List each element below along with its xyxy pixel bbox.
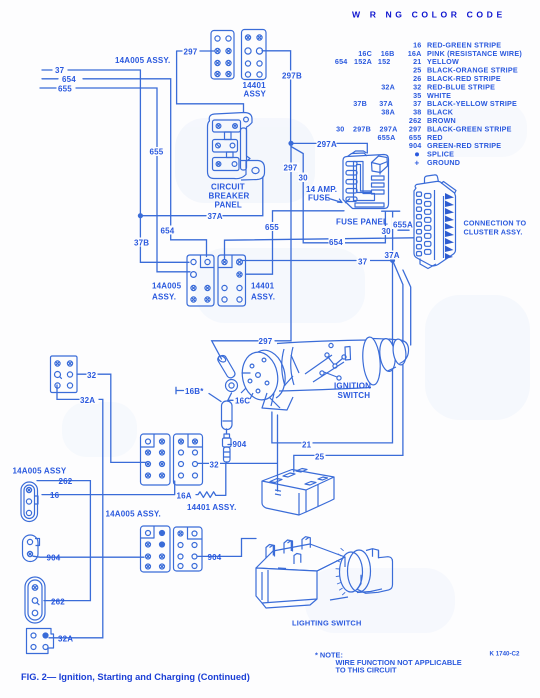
svg-text:655: 655 bbox=[58, 85, 72, 94]
cluster connector drawing bbox=[392, 175, 456, 269]
svg-text:IGNITION: IGNITION bbox=[334, 382, 371, 391]
connector 904 pair right bbox=[174, 527, 203, 571]
label wire 30 fuse panel bbox=[381, 226, 392, 236]
svg-text:654: 654 bbox=[329, 238, 343, 247]
svg-text:37B: 37B bbox=[134, 238, 149, 247]
svg-text:14A005 ASSY: 14A005 ASSY bbox=[13, 467, 67, 476]
svg-text:904: 904 bbox=[47, 554, 61, 563]
svg-text:GROUND: GROUND bbox=[427, 158, 460, 167]
wire 654 left entry bbox=[42, 79, 207, 257]
svg-text:16C: 16C bbox=[235, 397, 250, 406]
label wire 30 bbox=[298, 173, 308, 183]
wire 904 right to lighting switch bbox=[198, 539, 256, 557]
svg-text:297: 297 bbox=[259, 337, 273, 346]
svg-text:30: 30 bbox=[382, 227, 392, 236]
svg-text:904: 904 bbox=[233, 440, 247, 449]
label wire 32A lower bbox=[58, 635, 73, 644]
svg-text:37A: 37A bbox=[208, 212, 223, 221]
wire 297A to fuse panel bbox=[291, 143, 367, 153]
label wire 32 bbox=[209, 460, 220, 470]
wire 30 from junction bbox=[291, 147, 385, 243]
svg-text:654: 654 bbox=[335, 57, 348, 66]
svg-text:297B: 297B bbox=[353, 124, 371, 133]
svg-text:W R NG COLOR CODE: W R NG COLOR CODE bbox=[352, 10, 506, 20]
label wire 37A junction bbox=[384, 251, 402, 261]
wire 37A vertical fuse panel to junction bbox=[392, 211, 394, 260]
svg-text:+: + bbox=[415, 158, 420, 167]
svg-text:FUSE PANEL: FUSE PANEL bbox=[336, 218, 388, 227]
wire 37A to breaker panel bbox=[140, 177, 262, 216]
svg-text:14401 ASSY.: 14401 ASSY. bbox=[187, 503, 237, 512]
label wire 654 vertical bbox=[160, 226, 177, 236]
14 amp fuse in panel bbox=[372, 156, 388, 173]
wire labels top-left bbox=[55, 47, 337, 301]
junction dot 37/37A bbox=[390, 258, 395, 263]
svg-text:904: 904 bbox=[208, 553, 222, 562]
svg-text:654: 654 bbox=[62, 75, 76, 84]
svg-text:297A: 297A bbox=[317, 140, 337, 149]
svg-text:14A005 ASSY.: 14A005 ASSY. bbox=[115, 56, 170, 65]
svg-text:297B: 297B bbox=[282, 71, 302, 80]
connector 14A005 assy mid left bbox=[187, 255, 214, 306]
svg-text:904: 904 bbox=[409, 141, 422, 150]
circuit breaker panel drawing bbox=[208, 113, 265, 181]
mid labels bbox=[80, 222, 402, 469]
junction dot 37/37B bbox=[138, 213, 143, 218]
breaker/fuse panel labels bbox=[209, 183, 527, 247]
label wire 32 small block bbox=[87, 370, 98, 380]
wire 297 vertical to ignition bbox=[212, 143, 291, 359]
connector 14A005 lower-mid left bbox=[141, 434, 171, 485]
label wire 16A bbox=[176, 491, 194, 501]
svg-text:K 1740-C2: K 1740-C2 bbox=[490, 651, 520, 658]
eyelet connector 262 lower bbox=[25, 577, 45, 623]
label wire 297 vertical bbox=[283, 163, 300, 173]
splice symbol bbox=[415, 152, 419, 156]
eyelet connector 904 bbox=[23, 535, 40, 562]
label wire 25 bbox=[315, 452, 326, 462]
label wire 37 mid bbox=[358, 257, 371, 267]
svg-text:32A: 32A bbox=[381, 82, 395, 91]
svg-text:16B*: 16B* bbox=[185, 387, 204, 396]
lower-left labels bbox=[13, 467, 362, 644]
svg-text:ASSY.: ASSY. bbox=[152, 293, 176, 302]
wire fuse chain verticals bbox=[227, 393, 232, 463]
wire 37B to connector bbox=[140, 216, 189, 263]
svg-text:TO THIS CIRCUIT: TO THIS CIRCUIT bbox=[336, 665, 398, 674]
wire 297 to 14401 assy bbox=[177, 51, 244, 112]
svg-text:CLUSTER ASSY.: CLUSTER ASSY. bbox=[464, 228, 523, 237]
wire to ignition switch top bbox=[403, 270, 411, 345]
svg-text:14A005: 14A005 bbox=[152, 282, 182, 291]
svg-text:37B: 37B bbox=[353, 99, 367, 108]
ignition switch body bbox=[239, 336, 409, 410]
svg-text:38A: 38A bbox=[381, 108, 395, 117]
svg-text:SWITCH: SWITCH bbox=[338, 391, 371, 400]
label wire 297B bbox=[282, 71, 304, 81]
svg-text:14401: 14401 bbox=[251, 282, 275, 291]
svg-text:FIG. 2— Ignition, Starting and: FIG. 2— Ignition, Starting and Charging … bbox=[21, 672, 250, 682]
svg-text:BREAKER: BREAKER bbox=[209, 192, 250, 201]
leader 904 fuse bbox=[228, 444, 232, 446]
svg-text:655: 655 bbox=[265, 223, 279, 232]
wire 37 left entry bbox=[42, 70, 140, 216]
svg-text:262: 262 bbox=[51, 597, 65, 606]
label wire 655 right bbox=[265, 222, 282, 232]
svg-text:152: 152 bbox=[378, 57, 391, 66]
leader fuse arrow bbox=[329, 199, 342, 203]
wire 25 bbox=[294, 260, 403, 472]
wire 37 mid run bbox=[243, 260, 393, 262]
connector 14401 assy left half bbox=[211, 31, 234, 80]
svg-text:32: 32 bbox=[87, 371, 97, 380]
label wire 21 bbox=[302, 440, 313, 450]
connector 904 pair left bbox=[141, 526, 171, 572]
svg-text:25: 25 bbox=[315, 452, 325, 461]
svg-text:37: 37 bbox=[358, 257, 368, 266]
wire 16 bbox=[42, 481, 175, 495]
wire 262 loop bbox=[37, 481, 90, 601]
lighting switch assembly bbox=[256, 537, 393, 608]
svg-text:FUSE: FUSE bbox=[308, 194, 331, 203]
label wire 37B bbox=[134, 238, 151, 248]
fuse 904 inline bbox=[223, 434, 232, 462]
svg-text:297: 297 bbox=[184, 47, 198, 56]
svg-text:152A: 152A bbox=[354, 57, 372, 66]
leader 655A to cluster bbox=[398, 229, 409, 231]
svg-text:655A: 655A bbox=[393, 221, 413, 230]
WIRES-LAYER bbox=[33, 51, 414, 638]
svg-text:262: 262 bbox=[59, 477, 73, 486]
svg-text:30: 30 bbox=[299, 174, 309, 183]
svg-text:14A005 ASSY.: 14A005 ASSY. bbox=[106, 510, 161, 519]
color code table bbox=[335, 40, 522, 167]
resistor 16A bbox=[196, 463, 226, 497]
svg-text:PANEL: PANEL bbox=[215, 201, 243, 210]
svg-text:30: 30 bbox=[336, 124, 344, 133]
svg-text:16: 16 bbox=[50, 491, 60, 500]
connector block 32A bbox=[27, 629, 54, 654]
wire 655 right run to fuse panel bbox=[246, 211, 345, 274]
wire 32 right run to switch and relay bbox=[198, 415, 278, 491]
svg-text:LIGHTING SWITCH: LIGHTING SWITCH bbox=[292, 619, 362, 628]
wire 30 fuse panel stub bbox=[382, 210, 400, 212]
connector 14401 lower-mid right bbox=[174, 434, 203, 485]
svg-text:ASSY: ASSY bbox=[244, 90, 267, 99]
wire 654 main run to cluster bbox=[225, 238, 414, 259]
svg-text:655A: 655A bbox=[378, 133, 396, 142]
wire 655 left entry bbox=[40, 88, 190, 272]
label wire 32A upper bbox=[80, 395, 99, 405]
svg-text:21: 21 bbox=[302, 440, 312, 449]
wire 904 left bbox=[33, 556, 144, 557]
lighting switch connector plug bbox=[262, 469, 334, 516]
wire 32A upper bbox=[49, 385, 103, 638]
connector 14401 assy right half bbox=[242, 30, 267, 80]
svg-text:CIRCUIT: CIRCUIT bbox=[211, 183, 245, 192]
wire 32 left run bbox=[77, 374, 146, 462]
leader 16B* bbox=[176, 387, 221, 401]
label wire 655 vertical bbox=[149, 147, 167, 157]
COMPONENTS-LAYER bbox=[21, 30, 456, 654]
resistance wire cylinder 297 bbox=[217, 355, 237, 392]
leader 16C bbox=[228, 399, 233, 401]
junction dot 297/297A/30 bbox=[288, 141, 293, 146]
svg-text:37: 37 bbox=[55, 66, 65, 75]
svg-text:ASSY.: ASSY. bbox=[251, 293, 275, 302]
svg-text:297: 297 bbox=[284, 164, 298, 173]
capsule connector 16C bbox=[222, 401, 233, 430]
label wire 654 main bbox=[329, 237, 346, 247]
wire 297B bbox=[262, 51, 291, 143]
svg-text:37A: 37A bbox=[385, 251, 400, 260]
fuse panel drawing bbox=[343, 151, 389, 209]
svg-text:32A: 32A bbox=[80, 396, 95, 405]
svg-text:CONNECTION TO: CONNECTION TO bbox=[464, 219, 527, 228]
svg-text:32A: 32A bbox=[58, 635, 73, 644]
svg-text:655: 655 bbox=[150, 148, 164, 157]
svg-text:654: 654 bbox=[161, 226, 175, 235]
connector 14401 assy mid right bbox=[218, 255, 246, 306]
connector block 32 bbox=[51, 356, 78, 393]
wire 21 bbox=[272, 260, 393, 443]
svg-text:32: 32 bbox=[210, 460, 220, 469]
eyelet connector 262/16 bbox=[21, 482, 38, 522]
svg-text:16A: 16A bbox=[177, 491, 192, 500]
